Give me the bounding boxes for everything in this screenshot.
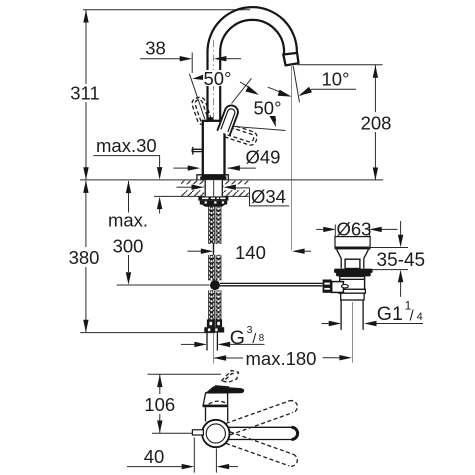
dimension diameter 34 arrows (177, 186, 192, 188)
dimension 40 extension lines (193, 438, 195, 473)
drain plug top face thick (335, 247, 371, 250)
pop-up rod horizontal (220, 282, 323, 284)
top reference line (83, 9, 250, 11)
handle solid position (217, 104, 240, 136)
dimension label 50deg no.2 (253, 99, 283, 116)
spout inner contour (220, 20, 284, 121)
halo for diameter 34 dimension over hatch (178, 184, 204, 190)
svg-text:40: 40 (144, 446, 165, 467)
50deg no.2: axis line of handle down position (230, 126, 286, 130)
svg-text:140: 140 (235, 242, 266, 263)
dimension G1 1/4 (322, 323, 329, 325)
drain flange disc (334, 269, 373, 273)
side view: swivel joint outer circle (202, 420, 229, 447)
side view: spout end cap thick (292, 427, 298, 439)
dimension G3/8 (181, 343, 194, 345)
drain centerline extension (352, 302, 354, 363)
svg-text:max.180: max.180 (246, 348, 317, 369)
flexible hose right segment C (216, 290, 222, 319)
outlet 10 degree slant line (293, 66, 299, 102)
faucet centerline lower (213, 205, 215, 364)
side view: spout dashed down position (230, 432, 293, 454)
50deg no.1: axis line of solid handle extended (232, 78, 252, 103)
dimension 208 reference line (297, 64, 382, 66)
svg-text:38: 38 (145, 38, 166, 59)
base flange (197, 175, 228, 180)
svg-text:G1: G1 (377, 303, 403, 325)
svg-text:8: 8 (259, 333, 265, 344)
side view: pop-up knob (192, 430, 203, 435)
pop-up rod coupling to drain (332, 282, 344, 293)
spout pipe centerline (213, 40, 215, 120)
svg-text:35-45: 35-45 (377, 250, 426, 271)
svg-text:50°: 50° (204, 68, 232, 89)
svg-text:380: 380 (69, 247, 100, 268)
dimension max.180 (214, 357, 243, 359)
svg-text:50°: 50° (254, 98, 282, 119)
dimension 38 (140, 58, 181, 60)
side view: 106 bottom reference line (152, 432, 192, 434)
drain tailpipe (340, 300, 342, 330)
svg-text:Ø49: Ø49 (246, 147, 281, 168)
flexible hose right segment B (216, 255, 222, 280)
side view: 106 top reference line (148, 373, 222, 375)
side view: spout dashed up position (226, 401, 289, 424)
handle rotated position dashed left (open) (191, 96, 213, 126)
dimension 40 (127, 466, 182, 468)
mounting nut under deck (200, 201, 227, 205)
svg-text:300: 300 (113, 236, 144, 257)
side view: faucet body column (205, 407, 207, 421)
dimension 311 vertical line (85, 10, 87, 84)
50deg no.1: arc left arrow (192, 74, 206, 82)
counter deck top line (80, 179, 383, 181)
counter deck bottom line (154, 195, 249, 197)
10 degree leader line and arrow (312, 88, 357, 90)
svg-text:10°: 10° (322, 69, 350, 90)
dimension max.30 leader (93, 156, 159, 167)
svg-text:Ø34: Ø34 (251, 186, 286, 207)
side view: lever raised dashed (221, 371, 238, 383)
side view: cartridge head (203, 393, 227, 405)
dimension diameter 49 (173, 167, 188, 169)
pop-up vertical rod between hoses (213, 205, 215, 281)
side view: lever closed solid (206, 386, 244, 393)
dimension 208 vertical line (374, 65, 376, 112)
svg-text:/: / (252, 330, 256, 346)
cartridge dark band at body top (208, 117, 214, 121)
pop-up rod knurled coupling nut (323, 280, 332, 293)
380 bottom reference line (80, 332, 215, 334)
svg-text:106: 106 (144, 394, 175, 415)
drain taper (337, 249, 369, 268)
50deg no.1: arc right segment and arrow (240, 82, 257, 94)
10 degree arc with arrow (268, 87, 289, 96)
flexible hose left segment A (208, 207, 215, 244)
drain plug top cylinder (335, 237, 370, 248)
faucet body (203, 121, 225, 177)
outlet centerline (291, 65, 293, 251)
max.300 reference line (117, 284, 210, 286)
dimension 106 (159, 374, 161, 394)
flexible hose left segment C (208, 290, 215, 319)
svg-text:max.: max. (108, 210, 148, 231)
handle rotated position dashed right (down) (222, 123, 259, 147)
drain bottom nut (339, 289, 366, 293)
flexible hose right segment A (216, 207, 222, 244)
dimension label 50deg no.1 (203, 70, 236, 86)
flexible hose left segment B (208, 255, 215, 280)
supply pipe below hoses (206, 333, 208, 351)
hose end fitting band (204, 327, 224, 332)
counter deck hatch right (223, 181, 248, 197)
mounting washer under deck (198, 197, 228, 201)
drain waist block (345, 259, 360, 268)
side view: spout tube solid (228, 426, 292, 428)
svg-text:208: 208 (361, 113, 392, 134)
svg-text:311: 311 (70, 83, 100, 104)
dimension max.300 (128, 181, 130, 213)
dimension 380 (85, 181, 87, 247)
svg-text:4: 4 (417, 311, 423, 323)
side view: head bottom thick band (203, 405, 229, 408)
nut taper to hoses (202, 205, 226, 207)
50deg no.1: axis line of dashed handle (189, 74, 204, 119)
dimension diameter 63 (316, 228, 323, 230)
spout outer contour (208, 7, 297, 121)
dimension 35-45 (400, 221, 402, 235)
50deg no.2: arc segment and bottom arrow (273, 106, 276, 121)
dimension 140 (188, 250, 202, 252)
svg-text:G: G (230, 327, 245, 349)
counter deck hatch left (181, 181, 204, 197)
svg-text:max.30: max.30 (96, 135, 157, 156)
side view: swivel joint inner circle (206, 424, 225, 443)
aerator outlet (283, 53, 298, 66)
shank through deck (204, 180, 223, 196)
hose end connectors (207, 320, 214, 327)
drain body (340, 276, 365, 289)
dimension label diameter 34 with bracket (250, 188, 290, 206)
pop-up rod knob (192, 149, 203, 151)
pop-up rod ball joint (210, 280, 220, 290)
